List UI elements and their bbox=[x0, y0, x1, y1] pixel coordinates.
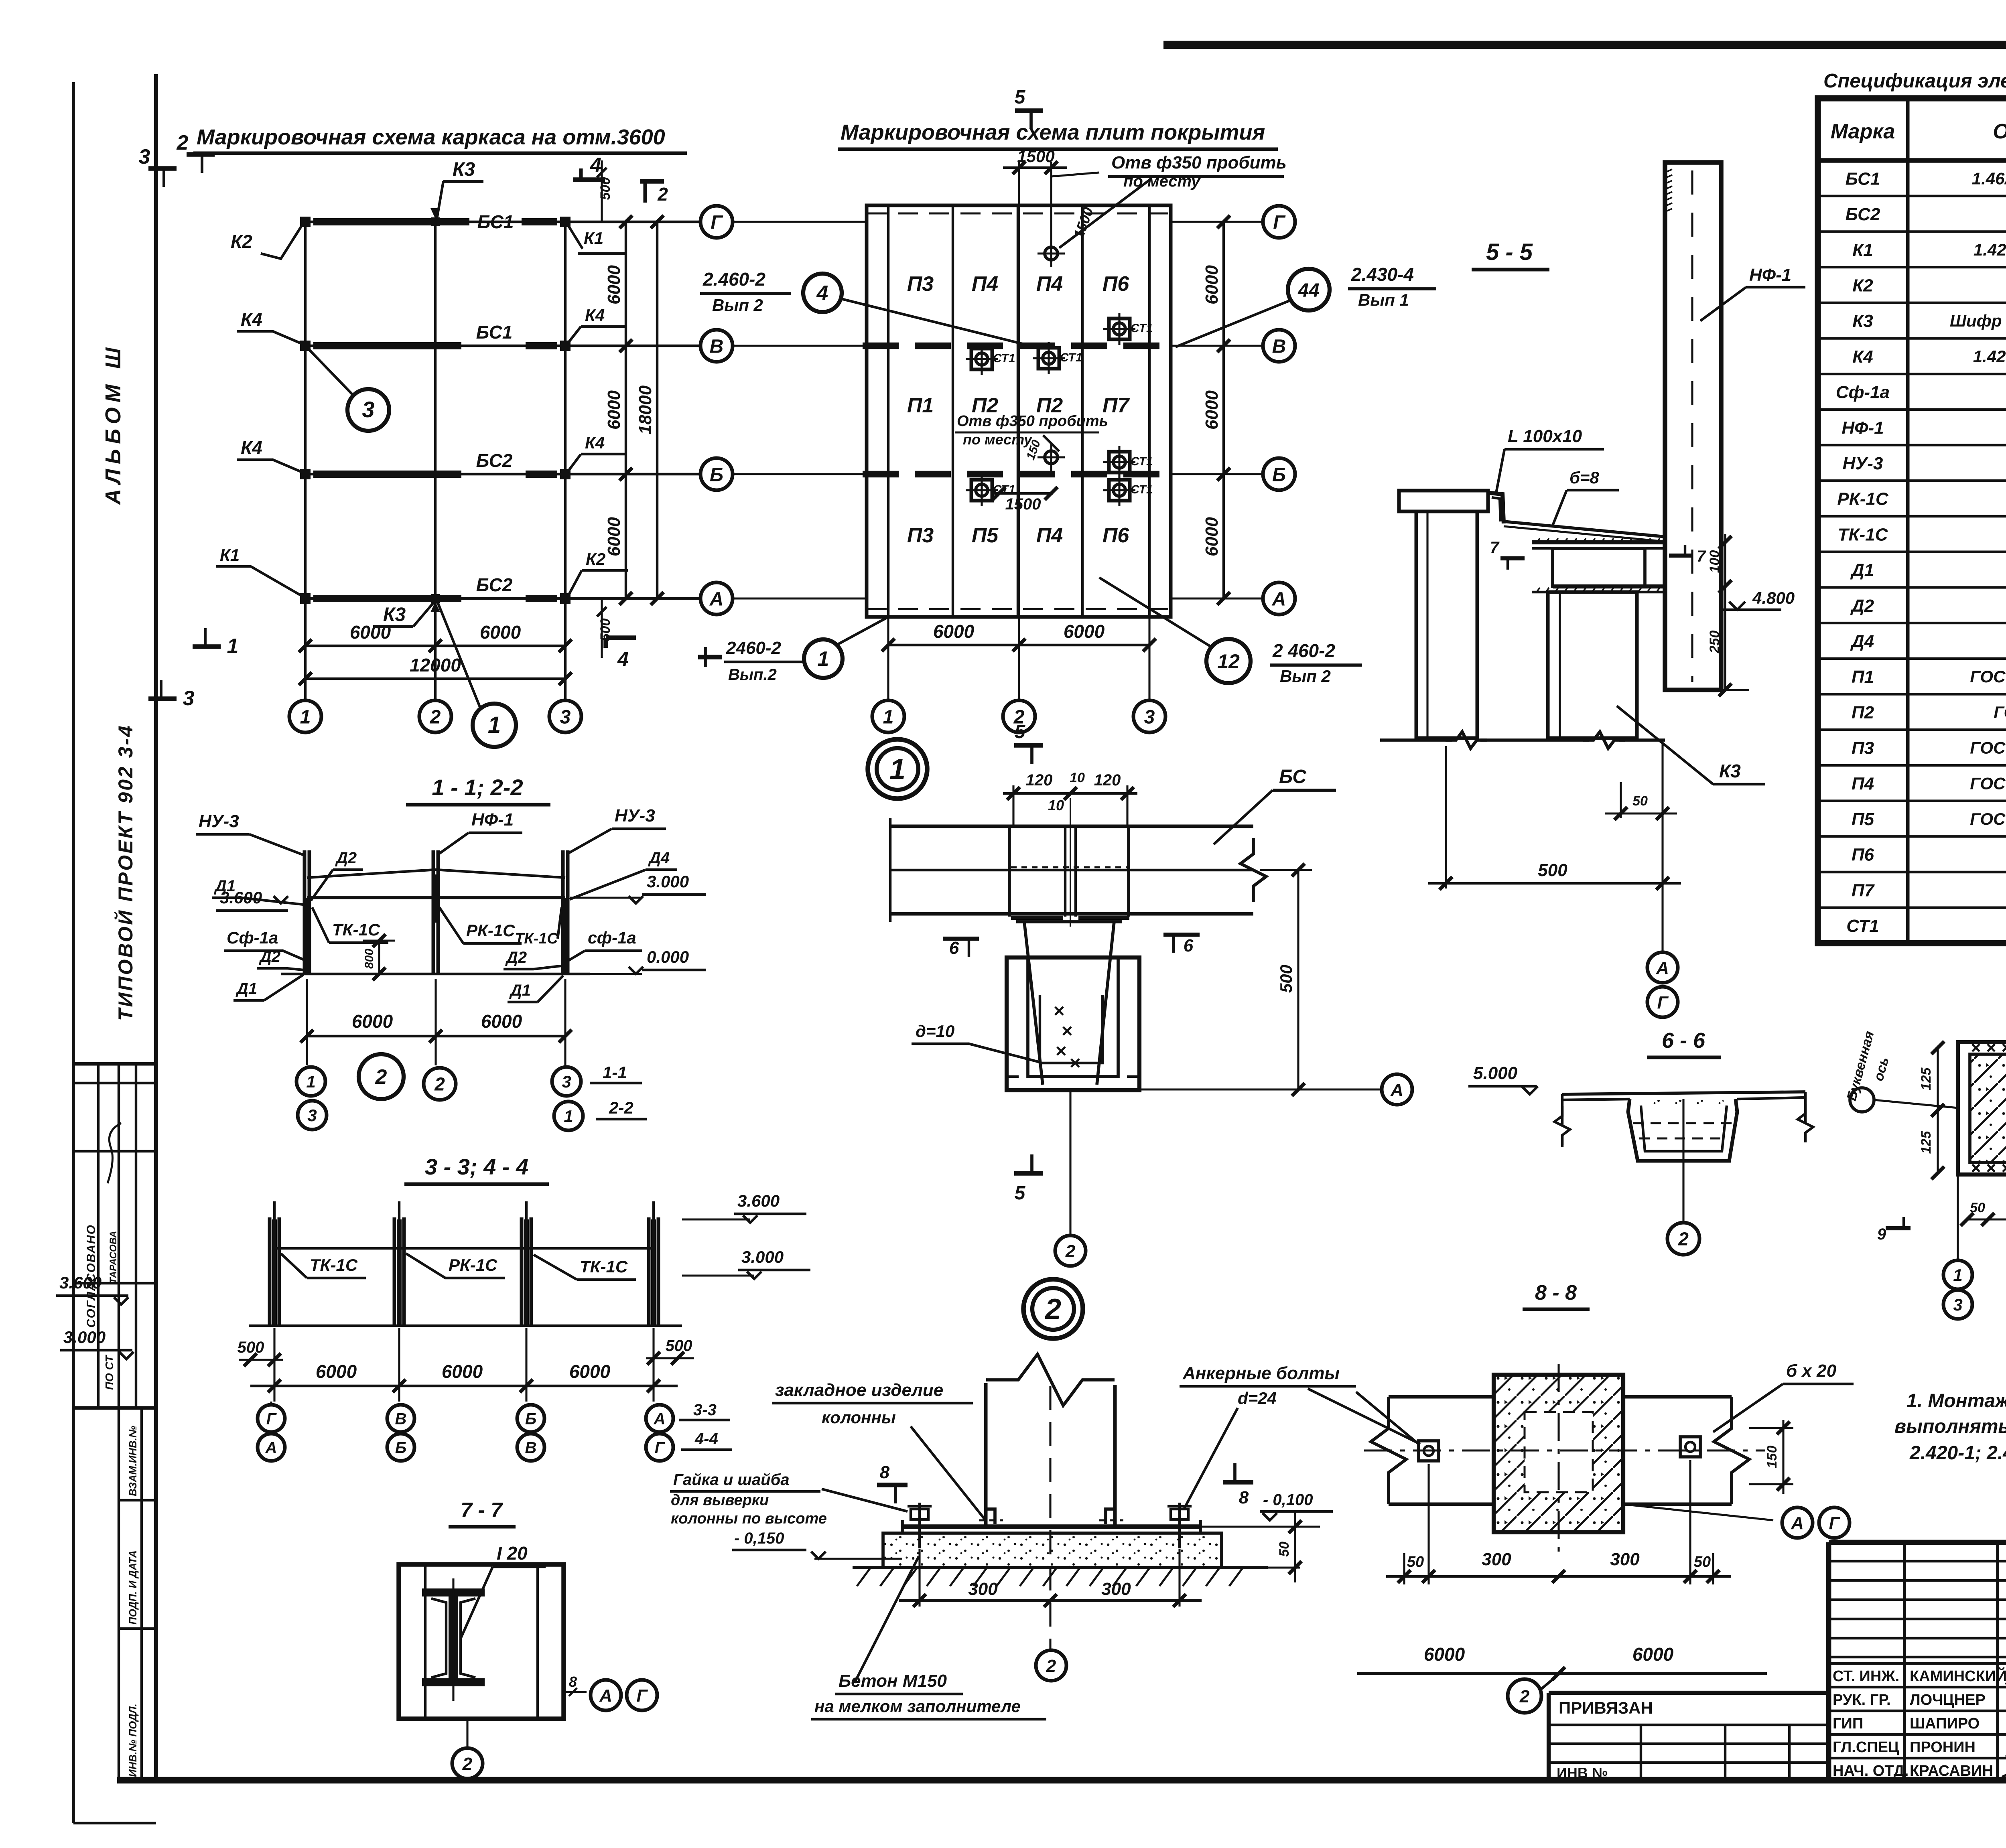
beam line 3-3 bbox=[274, 1247, 654, 1250]
beam section 6-6 bbox=[1628, 1099, 1737, 1161]
svg-text:РК-1С: РК-1С bbox=[466, 921, 515, 940]
axis circles bottom scheme1 bbox=[304, 682, 307, 700]
svg-text:4: 4 bbox=[816, 282, 828, 305]
svg-text:2: 2 bbox=[434, 1074, 445, 1095]
axis circle 2 8-8 bbox=[1508, 1679, 1541, 1713]
detail 1 bubble bbox=[868, 739, 927, 799]
svg-text:250: 250 bbox=[1707, 631, 1722, 654]
svg-text:1: 1 bbox=[564, 1107, 573, 1126]
svg-text:П5: П5 bbox=[1852, 809, 1874, 829]
left column with plate bbox=[1399, 491, 1488, 511]
svg-text:СТ1: СТ1 bbox=[1060, 351, 1082, 364]
callout circle 3 bbox=[347, 389, 389, 431]
svg-text:Вып 2: Вып 2 bbox=[712, 296, 763, 314]
svg-text:10: 10 bbox=[1048, 797, 1064, 813]
concrete pad bbox=[883, 1533, 1222, 1568]
dims detail 3 bbox=[1937, 1048, 1939, 1173]
beam БС2 on axis Б bbox=[313, 471, 461, 478]
svg-text:по месту: по месту bbox=[963, 431, 1033, 448]
svg-text:800: 800 bbox=[363, 949, 376, 969]
svg-text:П4: П4 bbox=[1036, 272, 1063, 296]
inventory stamp band bbox=[118, 1408, 120, 1781]
axis circles right scheme2 bbox=[1263, 206, 1295, 238]
svg-text:2: 2 bbox=[1678, 1229, 1689, 1250]
svg-text:Отв ф350 пробить: Отв ф350 пробить bbox=[957, 413, 1108, 430]
svg-text:3: 3 bbox=[139, 145, 150, 168]
svg-text:1: 1 bbox=[306, 1072, 315, 1091]
section marks 7 bbox=[1500, 556, 1525, 560]
top chord bbox=[307, 896, 565, 899]
svg-text:Д2: Д2 bbox=[1850, 596, 1874, 616]
svg-text:ИНВ №: ИНВ № bbox=[1557, 1765, 1608, 1781]
hole dim 1500 mid bbox=[993, 492, 1053, 495]
svg-text:2: 2 bbox=[657, 184, 668, 205]
svg-text:К4: К4 bbox=[585, 306, 605, 325]
svg-text:1.423-3 Вып.1;2 К±-10: 1.423-3 Вып.1;2 К±-10 bbox=[1973, 347, 2006, 366]
dims 120 10 120 bbox=[1003, 792, 1137, 795]
right dim chain scheme2 bbox=[1222, 222, 1225, 598]
svg-text:12000: 12000 bbox=[410, 655, 461, 676]
svg-text:ТК-1С: ТК-1С bbox=[515, 930, 558, 947]
beam БС plan detail1 bbox=[890, 825, 1253, 828]
axis circle 2 detail1 bbox=[1069, 1090, 1071, 1235]
svg-text:Г: Г bbox=[1273, 212, 1286, 233]
dim 500 at 5-5 bbox=[1445, 746, 1447, 889]
svg-text:2 460-2: 2 460-2 bbox=[1272, 640, 1335, 661]
svg-text:ГОСТ 22701.2-77: ГОСТ 22701.2-77 bbox=[1994, 703, 2006, 722]
svg-text:П6: П6 bbox=[1852, 845, 1874, 865]
svg-text:1: 1 bbox=[488, 712, 501, 738]
detail 3 plan bbox=[1958, 1042, 2006, 1175]
svg-text:ИНВ.№ ПОДЛ.: ИНВ.№ ПОДЛ. bbox=[127, 1704, 139, 1777]
svg-text:6000: 6000 bbox=[1632, 1644, 1674, 1665]
svg-text:КРАСАВИН: КРАСАВИН bbox=[1910, 1763, 1993, 1779]
svg-text:3: 3 bbox=[362, 397, 374, 422]
svg-text:6000: 6000 bbox=[604, 265, 624, 304]
svg-text:РК-1С: РК-1С bbox=[1837, 489, 1889, 509]
svg-text:1: 1 bbox=[889, 753, 906, 785]
svg-text:НАЧ. ОТД.: НАЧ. ОТД. bbox=[1833, 1763, 1909, 1779]
svg-text:Сф-1а: Сф-1а bbox=[227, 928, 278, 947]
slab field outline bbox=[867, 205, 1171, 617]
svg-text:К3: К3 bbox=[453, 159, 475, 180]
svg-text:НФ-1: НФ-1 bbox=[471, 810, 514, 830]
svg-text:3: 3 bbox=[1144, 706, 1155, 728]
svg-text:Маркировочная схема каркаса на: Маркировочная схема каркаса на отм.3600 bbox=[197, 125, 665, 149]
svg-text:2: 2 bbox=[430, 706, 441, 728]
svg-text:П5: П5 bbox=[972, 524, 999, 547]
section mark 5 top detail1 bbox=[1014, 743, 1043, 748]
sheet bottom border bbox=[117, 1777, 2006, 1784]
svg-text:ГОСТ 22701.2-77 К±-11: ГОСТ 22701.2-77 К±-11 bbox=[1970, 809, 2006, 828]
svg-text:2: 2 bbox=[1044, 1293, 1061, 1325]
svg-text:СТ. ИНЖ.: СТ. ИНЖ. bbox=[1833, 1668, 1899, 1685]
bottom-left attachment stamp bbox=[1549, 1691, 1829, 1695]
svg-text:Г: Г bbox=[1657, 993, 1669, 1012]
svg-text:4.800: 4.800 bbox=[1752, 588, 1795, 607]
dims 50 300 300 50 8-8 bbox=[1403, 1553, 1405, 1584]
svg-text:Б: Б bbox=[710, 464, 723, 485]
svg-text:П7: П7 bbox=[1852, 880, 1875, 900]
column 1 of section 1-1 bbox=[303, 850, 307, 974]
svg-text:150: 150 bbox=[1764, 1446, 1780, 1469]
grid axis line 3 bbox=[564, 218, 566, 682]
svg-text:500: 500 bbox=[1538, 860, 1567, 880]
svg-text:П4: П4 bbox=[972, 272, 998, 296]
svg-text:К3: К3 bbox=[1719, 761, 1741, 781]
svg-text:6000: 6000 bbox=[481, 1011, 522, 1032]
dim 6000x3 3-3 bbox=[250, 1385, 678, 1387]
fachwerk column K3 top bbox=[431, 217, 440, 226]
svg-text:50: 50 bbox=[1694, 1554, 1711, 1570]
svg-text:6000: 6000 bbox=[1202, 390, 1222, 430]
svg-text:БС2: БС2 bbox=[476, 450, 513, 471]
svg-text:ГОСТ 22701.1-77 К±-11: ГОСТ 22701.1-77 К±-11 bbox=[1970, 738, 2006, 757]
svg-text:5: 5 bbox=[1015, 87, 1026, 108]
svg-text:Д1: Д1 bbox=[214, 877, 236, 895]
slabs over beam 6-6 bbox=[1562, 1092, 1805, 1094]
svg-text:300: 300 bbox=[968, 1579, 998, 1599]
svg-text:Б: Б bbox=[1272, 464, 1286, 485]
svg-text:1: 1 bbox=[883, 706, 894, 728]
svg-text:2: 2 bbox=[1046, 1656, 1056, 1676]
svg-text:500: 500 bbox=[598, 619, 613, 641]
svg-text:А: А bbox=[654, 1410, 666, 1428]
axis А line and circle detail1 bbox=[1007, 1088, 1380, 1090]
svg-text:8 - 8: 8 - 8 bbox=[1535, 1281, 1577, 1304]
svg-text:2-2: 2-2 bbox=[609, 1098, 633, 1117]
svg-text:8: 8 bbox=[569, 1674, 577, 1690]
detail 2 bubble bbox=[1023, 1279, 1083, 1339]
svg-text:500: 500 bbox=[666, 1337, 692, 1355]
axis circle 2 under 6-6 bbox=[1682, 1099, 1684, 1222]
svg-text:6000: 6000 bbox=[569, 1361, 611, 1382]
svg-text:4-4: 4-4 bbox=[694, 1430, 718, 1448]
svg-text:3.000: 3.000 bbox=[741, 1248, 784, 1266]
svg-text:6000: 6000 bbox=[480, 622, 521, 643]
svg-text:d=24: d=24 bbox=[1238, 1389, 1277, 1408]
console РК-1С under НФ-1 bbox=[1532, 540, 1664, 544]
svg-text:4: 4 bbox=[590, 154, 601, 176]
left margin rule B bbox=[154, 74, 158, 1780]
svg-text:Д1: Д1 bbox=[509, 982, 531, 999]
8-8 outer band bbox=[1389, 1395, 1494, 1399]
svg-text:П3: П3 bbox=[907, 272, 934, 296]
svg-text:12: 12 bbox=[1217, 650, 1240, 673]
svg-text:ТАРАСОВА: ТАРАСОВА bbox=[108, 1231, 119, 1284]
svg-text:К4: К4 bbox=[1852, 347, 1873, 367]
dim 300 300 base bbox=[918, 1549, 920, 1607]
I-beam section bbox=[422, 1588, 485, 1596]
svg-text:ТК-1С: ТК-1С bbox=[1838, 525, 1888, 544]
svg-text:ШАПИРО: ШАПИРО bbox=[1910, 1715, 1980, 1732]
svg-text:- 0,150: - 0,150 bbox=[734, 1530, 784, 1547]
svg-text:Обозначение: Обозначение bbox=[1993, 120, 2006, 143]
svg-text:Б: Б bbox=[525, 1410, 536, 1428]
svg-text:2.460-2: 2.460-2 bbox=[703, 269, 765, 290]
svg-text:НУ-3: НУ-3 bbox=[615, 806, 655, 826]
svg-text:СТ1: СТ1 bbox=[1131, 322, 1153, 335]
bearing trapezoid bbox=[1016, 920, 1122, 923]
axis circles section 1-1 bbox=[296, 1067, 325, 1096]
dashed column outline bbox=[1525, 1412, 1593, 1492]
svg-text:6000: 6000 bbox=[1064, 621, 1105, 642]
svg-text:ПРИВЯЗАН: ПРИВЯЗАН bbox=[1559, 1698, 1653, 1717]
svg-text:Д4: Д4 bbox=[648, 849, 670, 867]
svg-text:П1: П1 bbox=[907, 394, 934, 417]
hole symbol top bbox=[1045, 247, 1058, 260]
svg-text:В: В bbox=[710, 336, 724, 357]
slab axes extension lines bbox=[734, 221, 867, 223]
svg-text:7: 7 bbox=[1697, 548, 1706, 565]
svg-text:БС1: БС1 bbox=[477, 211, 514, 232]
svg-text:П4: П4 bbox=[1852, 774, 1874, 793]
svg-text:7: 7 bbox=[1490, 539, 1500, 556]
svg-text:К3: К3 bbox=[1852, 311, 1873, 331]
svg-text:5: 5 bbox=[1015, 1183, 1026, 1204]
svg-text:3: 3 bbox=[560, 706, 571, 728]
svg-text:120: 120 bbox=[1026, 771, 1053, 789]
grid axis line В bbox=[303, 345, 700, 347]
svg-text:500: 500 bbox=[598, 177, 613, 200]
svg-text:50: 50 bbox=[1407, 1554, 1424, 1570]
svg-text:3-3: 3-3 bbox=[693, 1401, 717, 1419]
svg-text:500: 500 bbox=[1277, 965, 1295, 993]
svg-text:3: 3 bbox=[562, 1072, 571, 1091]
svg-text:по месту: по месту bbox=[1123, 172, 1201, 190]
grid axis line 2 bbox=[434, 218, 437, 682]
ground line 5-5 bbox=[1380, 738, 1452, 742]
slab inner edges bbox=[887, 205, 889, 617]
svg-text:К1: К1 bbox=[1852, 240, 1873, 260]
column head verticals bbox=[1008, 826, 1011, 917]
svg-text:6000: 6000 bbox=[350, 622, 391, 643]
svg-text:3: 3 bbox=[183, 687, 195, 710]
section marks scheme1 bbox=[148, 166, 177, 171]
svg-text:А: А bbox=[1390, 1080, 1403, 1100]
svg-text:8: 8 bbox=[1239, 1488, 1249, 1507]
svg-text:Г: Г bbox=[636, 1686, 648, 1706]
dim 50 at 5-5 bbox=[1620, 782, 1622, 818]
svg-text:В: В bbox=[525, 1439, 537, 1456]
bottom dims scheme2 bbox=[888, 644, 1149, 646]
svg-text:Д4: Д4 bbox=[1850, 631, 1874, 651]
svg-text:А: А bbox=[1656, 958, 1669, 978]
svg-text:44: 44 bbox=[1297, 280, 1319, 301]
grid axis line А bbox=[303, 597, 700, 600]
spec table frame bbox=[1818, 98, 2006, 943]
svg-text:3.600: 3.600 bbox=[737, 1191, 780, 1210]
svg-text:6: 6 bbox=[1184, 936, 1194, 955]
callout 44 right bbox=[1288, 269, 1330, 310]
svg-text:колонны по высоте: колонны по высоте bbox=[671, 1510, 827, 1527]
beam БС2 on axis А bbox=[313, 595, 461, 602]
roof line bbox=[307, 870, 565, 878]
svg-text:Сф-1а: Сф-1а bbox=[1836, 383, 1890, 402]
section marks 9-9 on detail3 bbox=[1886, 1226, 1911, 1230]
svg-text:1: 1 bbox=[1953, 1266, 1962, 1284]
svg-text:ТИПОВОЙ ПРОЕКТ 902 3-4: ТИПОВОЙ ПРОЕКТ 902 3-4 bbox=[114, 724, 137, 1021]
grid axis line Г bbox=[303, 221, 700, 223]
svg-text:6000: 6000 bbox=[604, 390, 624, 430]
svg-text:А: А bbox=[709, 588, 724, 610]
section marks 6-6 detail1 bbox=[943, 937, 979, 941]
svg-text:БС1: БС1 bbox=[476, 322, 513, 343]
svg-text:К4: К4 bbox=[241, 309, 262, 330]
svg-text:А: А bbox=[265, 1439, 277, 1456]
svg-text:3: 3 bbox=[307, 1106, 317, 1125]
svg-text:ПО СТ: ПО СТ bbox=[103, 1354, 116, 1390]
svg-text:8: 8 bbox=[880, 1463, 890, 1482]
title block small grid columns bbox=[1903, 1542, 1906, 1781]
svg-text:б x 20: б x 20 bbox=[1786, 1361, 1837, 1381]
svg-text:К2: К2 bbox=[1852, 276, 1873, 295]
leader from анкерные болты to 8-8 bolt bbox=[1356, 1392, 1419, 1444]
svg-text:В: В bbox=[395, 1410, 407, 1428]
svg-text:А: А bbox=[1272, 588, 1286, 610]
svg-text:50: 50 bbox=[1632, 793, 1648, 809]
beam БС1 on axis Г bbox=[313, 218, 469, 225]
axis circle 2 base bbox=[1036, 1650, 1066, 1681]
column 2 of section 1-1 bbox=[432, 850, 435, 974]
svg-text:БС1: БС1 bbox=[1846, 169, 1880, 189]
svg-text:ГОСТ 22701.1-77 К±-11: ГОСТ 22701.1-77 К±-11 bbox=[1970, 774, 2006, 793]
svg-text:2: 2 bbox=[1065, 1241, 1076, 1261]
columns of section 3-3 bbox=[273, 1201, 276, 1219]
callout 1 bottom-left bbox=[698, 655, 722, 659]
fachwerk post НФ-1 bbox=[1665, 162, 1721, 690]
svg-text:ГЛ.СПЕЦ: ГЛ.СПЕЦ bbox=[1833, 1739, 1899, 1756]
svg-text:К1: К1 bbox=[584, 229, 603, 247]
svg-text:выполнять в соответствии с ука: выполнять в соответствии с указаниями се… bbox=[1894, 1416, 2006, 1437]
svg-text:колонны: колонны bbox=[822, 1408, 896, 1427]
svg-text:1500: 1500 bbox=[1005, 495, 1041, 513]
svg-text:РК-1С: РК-1С bbox=[449, 1256, 497, 1274]
svg-text:- 0,100: - 0,100 bbox=[1263, 1491, 1313, 1509]
svg-text:Спецификация элементов к марки: Спецификация элементов к маркировочным с… bbox=[1823, 70, 2006, 92]
base plate bbox=[902, 1524, 1200, 1529]
angle L100x10 bbox=[1486, 493, 1504, 523]
beam БС1 on axis В bbox=[313, 342, 461, 349]
svg-text:5 - 5: 5 - 5 bbox=[1486, 239, 1533, 265]
svg-text:НУ-3: НУ-3 bbox=[199, 811, 239, 831]
svg-text:А: А bbox=[1791, 1513, 1804, 1533]
svg-text:БС2: БС2 bbox=[1846, 205, 1880, 224]
svg-text:6 - 6: 6 - 6 bbox=[1662, 1028, 1706, 1053]
svg-text:Маркировочная схема плит покры: Маркировочная схема плит покрытия bbox=[841, 120, 1265, 144]
dim 500 detail1 bbox=[1297, 870, 1299, 1089]
axis circles right scheme1 bbox=[700, 206, 733, 238]
svg-text:6000: 6000 bbox=[316, 1361, 357, 1382]
bottom dimension 6000x2 bbox=[305, 645, 565, 647]
right dimension chain 6000x3 bbox=[625, 222, 627, 598]
dim 6000 6000 8-8 bbox=[1357, 1672, 1767, 1675]
svg-text:П1: П1 bbox=[1852, 667, 1874, 687]
svg-text:5.000: 5.000 bbox=[1473, 1063, 1518, 1083]
svg-text:Гайка и шайба: Гайка и шайба bbox=[673, 1471, 790, 1489]
svg-text:1-1: 1-1 bbox=[603, 1063, 627, 1082]
svg-text:50: 50 bbox=[1970, 1200, 1985, 1215]
dim 6000 6000 section 1-1 bbox=[307, 1035, 565, 1037]
svg-text:СТ1: СТ1 bbox=[1131, 455, 1153, 468]
svg-text:П6: П6 bbox=[1102, 524, 1129, 547]
СТ1 marks bbox=[971, 349, 992, 369]
svg-text:К2: К2 bbox=[586, 550, 605, 568]
svg-text:1: 1 bbox=[227, 635, 239, 658]
svg-text:закладное изделие: закладное изделие bbox=[775, 1380, 943, 1400]
svg-text:П3: П3 bbox=[907, 524, 934, 547]
svg-text:Г: Г bbox=[711, 212, 723, 233]
axis circles bottom scheme2 bbox=[872, 700, 904, 732]
svg-text:ТК-1С: ТК-1С bbox=[310, 1256, 358, 1274]
svg-text:7 - 7: 7 - 7 bbox=[461, 1499, 503, 1522]
anchor bolt right bbox=[1178, 1503, 1181, 1548]
column nodes bbox=[300, 217, 311, 227]
svg-text:6000: 6000 bbox=[352, 1011, 393, 1032]
stiffener dots bbox=[1011, 866, 1128, 868]
svg-text:ПОДП. И ДАТА: ПОДП. И ДАТА bbox=[127, 1550, 139, 1625]
svg-text:18000: 18000 bbox=[636, 385, 655, 434]
axis circle 2 below 7-7 bbox=[466, 1719, 468, 1747]
svg-text:НУ-3: НУ-3 bbox=[1843, 454, 1883, 473]
svg-text:6000: 6000 bbox=[442, 1361, 483, 1382]
svg-text:Д2: Д2 bbox=[505, 949, 527, 966]
svg-text:К4: К4 bbox=[585, 433, 605, 452]
axis circles 1-3 below detail3 bbox=[1957, 1175, 1959, 1260]
svg-text:L 100x10: L 100x10 bbox=[1508, 426, 1582, 446]
fachwerk column K3 bottom bbox=[431, 594, 440, 603]
svg-text:ТК-1С: ТК-1С bbox=[332, 920, 380, 939]
svg-text:2.430-4: 2.430-4 bbox=[1351, 264, 1414, 285]
svg-text:50: 50 bbox=[1277, 1542, 1292, 1557]
break ends 6-6 bbox=[1561, 1094, 1563, 1126]
svg-text:6000: 6000 bbox=[604, 517, 624, 556]
hole dim 1500 top bbox=[1003, 166, 1067, 169]
mortar marks in stakan bbox=[1055, 1007, 1063, 1015]
svg-text:Д2: Д2 bbox=[335, 849, 357, 867]
svg-text:К2: К2 bbox=[231, 231, 252, 252]
title block outline bbox=[1829, 1540, 2006, 1545]
svg-text:Вып 2: Вып 2 bbox=[1280, 667, 1331, 686]
small grid rows bbox=[1829, 1560, 2006, 1562]
svg-text:125: 125 bbox=[1919, 1067, 1934, 1091]
svg-text:СТ1: СТ1 bbox=[1131, 483, 1153, 496]
callout 12 bottom-right bbox=[1206, 639, 1251, 683]
svg-text:1500: 1500 bbox=[1017, 147, 1054, 166]
svg-text:120: 120 bbox=[1094, 771, 1121, 789]
7-7 slab plan bbox=[399, 1564, 564, 1719]
svg-text:Вып 1: Вып 1 bbox=[1358, 290, 1409, 309]
ground line 1-1 bbox=[281, 973, 590, 975]
bottom dimension 12000 bbox=[305, 678, 565, 680]
svg-text:Г: Г bbox=[655, 1439, 666, 1456]
svg-text:3 - 3; 4 - 4: 3 - 3; 4 - 4 bbox=[425, 1154, 528, 1179]
svg-text:Анкерные болты: Анкерные болты bbox=[1182, 1363, 1340, 1383]
svg-text:АЛЬБОМ Ш: АЛЬБОМ Ш bbox=[101, 343, 125, 505]
svg-text:1. Монтаж ж.б элементов карк: 1. Монтаж ж.б элементов каркаса и покрыт… bbox=[1907, 1390, 2006, 1412]
svg-text:А: А bbox=[599, 1686, 612, 1706]
dim 800 mid bbox=[378, 941, 380, 974]
svg-text:2: 2 bbox=[462, 1754, 473, 1774]
svg-text:Шифр 460-75Вып.1,2 К±-10: Шифр 460-75Вып.1,2 К±-10 bbox=[1950, 311, 2006, 330]
svg-text:2: 2 bbox=[1519, 1687, 1530, 1706]
axis circles А Г of 5-5 bbox=[1661, 889, 1663, 951]
grid axis line 1 bbox=[304, 218, 307, 682]
svg-text:9: 9 bbox=[1877, 1225, 1886, 1243]
weld x marks bbox=[1972, 1044, 1980, 1051]
svg-text:ЛОЧЦНЕР: ЛОЧЦНЕР bbox=[1910, 1692, 1986, 1708]
bolt left 8-8 bbox=[1419, 1441, 1439, 1461]
